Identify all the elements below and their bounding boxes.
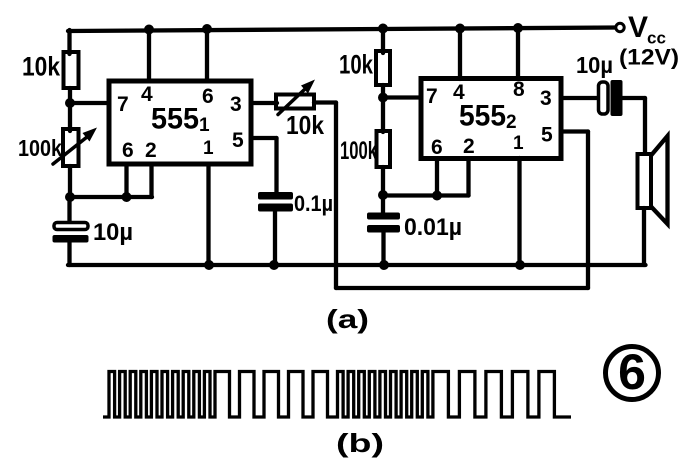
capacitor C2 0.1u bottom plate bbox=[258, 204, 293, 212]
wire node C down to R4 bbox=[381, 98, 385, 133]
svg-text:1: 1 bbox=[513, 133, 524, 154]
wire IC1 pin2 bottom bbox=[149, 164, 153, 197]
wire pot bottom to node B bbox=[68, 166, 72, 198]
svg-text:1: 1 bbox=[199, 115, 210, 136]
wire IC1 pin3 out bbox=[251, 101, 277, 105]
wire node D to IC2 pins 6,2 bbox=[383, 193, 469, 197]
node dot ground/C3 bbox=[379, 260, 389, 270]
node dot rail/pin6 bbox=[202, 24, 212, 34]
svg-text:7: 7 bbox=[426, 85, 438, 108]
svg-text:10k: 10k bbox=[339, 50, 374, 80]
svg-text:555: 555 bbox=[459, 100, 506, 133]
IC2 555 box bbox=[421, 79, 561, 159]
capacitor C1 10u bottom plate (solid) bbox=[53, 235, 89, 243]
svg-text:100k: 100k bbox=[340, 137, 377, 165]
waveform (b) square wave bbox=[103, 372, 571, 418]
wire modulation vertical (crosses ground rail) bbox=[334, 103, 338, 289]
node B junction dot bbox=[65, 192, 75, 202]
potentiometer 10k coupling body bbox=[276, 95, 314, 109]
svg-text:8: 8 bbox=[513, 78, 525, 101]
wire VCC top rail bbox=[68, 28, 618, 32]
wire speaker bottom to ground rail bbox=[642, 208, 646, 265]
wire IC2 pin6 bottom bbox=[435, 160, 439, 196]
svg-text:555: 555 bbox=[151, 103, 199, 136]
potentiometer 100k stage1 body bbox=[63, 129, 79, 166]
wire IC2 pin3 out bbox=[561, 96, 599, 100]
potentiometer 10k coupling arrow bbox=[278, 89, 305, 115]
node dot rail/R3 bbox=[378, 24, 388, 34]
svg-text:2: 2 bbox=[506, 112, 517, 133]
capacitor C1 10u top plate (hollow) bbox=[54, 223, 88, 230]
wire IC2 pin8 to rail bbox=[516, 28, 520, 79]
wire IC2 pin4 to rail bbox=[458, 29, 462, 80]
node junction dot pin6 wire bbox=[122, 192, 132, 202]
wire IC2 pin1 to ground bbox=[517, 158, 521, 265]
svg-text:5: 5 bbox=[232, 129, 244, 152]
wire pot10k to down line bbox=[314, 100, 336, 104]
wire R4 to node D bbox=[381, 167, 385, 196]
svg-text:7: 7 bbox=[117, 93, 129, 116]
wire node B down to C1 bbox=[67, 197, 71, 224]
svg-text:0.01µ: 0.01µ bbox=[404, 214, 462, 241]
svg-text:0.1µ: 0.1µ bbox=[294, 191, 333, 216]
wire R3 to node C bbox=[381, 85, 385, 99]
resistor R4 100k stage2 bbox=[377, 131, 391, 167]
wire C3 to ground bbox=[381, 232, 385, 265]
wire IC1 pin6top to rail bbox=[205, 29, 209, 81]
wire left column top (rail to R1) bbox=[67, 30, 71, 54]
wire C1 to ground rail bbox=[67, 242, 71, 265]
svg-text:100k: 100k bbox=[18, 135, 62, 161]
wire C2 to ground bbox=[273, 212, 277, 266]
node A junction dot bbox=[65, 98, 75, 108]
resistor R3 10k stage2 bbox=[376, 51, 390, 85]
resistor R 10k stage1 bbox=[64, 52, 79, 88]
svg-text:10k: 10k bbox=[22, 52, 61, 82]
wire IC2 pin2 bottom bbox=[466, 160, 470, 196]
svg-text:6: 6 bbox=[202, 85, 214, 108]
node dot ground/pin1 bbox=[204, 260, 214, 270]
wire C4 to speaker bbox=[622, 96, 645, 100]
capacitor C3 0.01u top plate bbox=[367, 213, 400, 220]
svg-text:(b): (b) bbox=[336, 428, 384, 458]
node dot pin6 wire bbox=[432, 191, 442, 201]
svg-text:6: 6 bbox=[122, 139, 134, 162]
capacitor C3 0.01u bottom plate bbox=[367, 225, 400, 233]
svg-text:6: 6 bbox=[431, 136, 443, 159]
svg-text:10µ: 10µ bbox=[93, 219, 133, 246]
node dot rail/pin4 bbox=[144, 25, 154, 35]
wire modulation horizontal y288 bbox=[336, 286, 588, 290]
capacitor C4 10u left plate (hollow) bbox=[599, 82, 609, 114]
node VCC terminal circle bbox=[616, 23, 624, 31]
svg-text:3: 3 bbox=[230, 93, 242, 116]
node dot rail/pin4 IC2 bbox=[455, 24, 465, 34]
svg-text:5: 5 bbox=[541, 124, 553, 147]
node dot ground/C2 bbox=[269, 260, 279, 270]
potentiometer 100k stage1 arrow bbox=[53, 137, 87, 164]
svg-text:3: 3 bbox=[540, 87, 552, 110]
svg-text:10µ: 10µ bbox=[576, 52, 613, 78]
wire R1 bottom to node A bbox=[68, 88, 72, 104]
wire IC1 pin6 bottom bbox=[124, 164, 128, 197]
svg-text:1: 1 bbox=[203, 138, 214, 159]
wire node C to IC2 pin7 bbox=[383, 95, 421, 99]
speaker driver rectangle bbox=[638, 154, 652, 208]
wire IC1 pin1 to ground bbox=[206, 164, 210, 265]
wire modulation up to IC2 pin5 bbox=[586, 132, 590, 289]
wire node A down to pot 100k bbox=[68, 103, 72, 131]
svg-text:2: 2 bbox=[145, 139, 157, 162]
wire IC1 pin5 out bbox=[251, 136, 277, 140]
capacitor C2 0.1u top plate bbox=[258, 192, 293, 200]
svg-text:10k: 10k bbox=[286, 110, 324, 140]
wire down to speaker top bbox=[643, 98, 647, 155]
wire node D down to C3 bbox=[381, 196, 385, 215]
ground bottom rail bbox=[68, 263, 646, 267]
node C junction dot bbox=[378, 93, 388, 103]
svg-text:(12V): (12V) bbox=[619, 45, 679, 70]
figure number circle 6 bbox=[606, 347, 659, 400]
node dot ground/pin1 IC2 bbox=[515, 260, 525, 270]
wire pin5 down to C2 bbox=[274, 138, 278, 193]
IC1 555 box bbox=[109, 81, 251, 164]
svg-text:V: V bbox=[628, 11, 648, 44]
svg-text:6: 6 bbox=[618, 344, 646, 400]
node dot rail/pin8 IC2 bbox=[513, 23, 523, 33]
node D junction dot bbox=[378, 190, 388, 200]
wire IC2 pin5 horizontal bbox=[561, 129, 588, 133]
svg-text:(a): (a) bbox=[326, 304, 369, 334]
wire node A to pin7 IC1 bbox=[70, 101, 109, 105]
svg-text:2: 2 bbox=[463, 135, 475, 158]
speaker cone bbox=[651, 136, 668, 224]
wire stage2 column rail to R3 bbox=[381, 29, 385, 53]
wire node B to IC1 pins 6,2 bbox=[70, 195, 152, 199]
capacitor C4 10u right plate (solid) bbox=[611, 80, 623, 116]
wire IC1 pin4 to rail bbox=[147, 30, 151, 82]
